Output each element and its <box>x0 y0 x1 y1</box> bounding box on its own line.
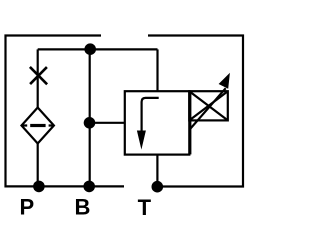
adjustability arrow head <box>219 73 230 89</box>
adjustability arrow shaft <box>189 88 225 130</box>
wire: B branch to valve left port <box>90 122 125 124</box>
wire: B riser vertical <box>89 49 91 186</box>
pilot box X diagonal 2 <box>189 91 228 120</box>
orifice X plug on P riser <box>30 67 47 84</box>
svg-text:B: B <box>75 195 91 220</box>
junction dot: B riser / valve branch <box>84 117 96 129</box>
valve internal flow arrow <box>142 98 159 132</box>
wire: P riser (filter to X plug to bus) <box>37 49 39 108</box>
wire: pilot box left edge merged with valve right edge <box>189 91 191 154</box>
pilot box (adjustable spring with X) <box>189 91 228 120</box>
pilot box X diagonal 1 <box>189 91 228 120</box>
wire: filter bottom to P port <box>37 143 39 187</box>
valve U1 body square <box>125 91 190 154</box>
wire: valve top port drop <box>156 49 158 91</box>
wire: upper horizontal bus from P riser to valve top <box>38 48 158 50</box>
wire: tank line frame (top-right, right side, bottom to T) <box>148 36 243 187</box>
wire: valve bottom port to T <box>156 155 158 187</box>
svg-text:T: T <box>138 195 152 220</box>
junction dot: port P <box>33 181 45 193</box>
junction dot: port B <box>83 181 95 193</box>
junction dot: bus/B riser <box>84 43 96 55</box>
svg-text:P: P <box>20 195 35 220</box>
filter F1 (diamond with dashed mesh) <box>22 108 54 144</box>
wire: manifold frame left (top-left corner, left side, bottom P-B rail) <box>6 36 125 187</box>
filter mesh dashed line <box>22 124 54 126</box>
junction dot: port T <box>152 181 164 193</box>
